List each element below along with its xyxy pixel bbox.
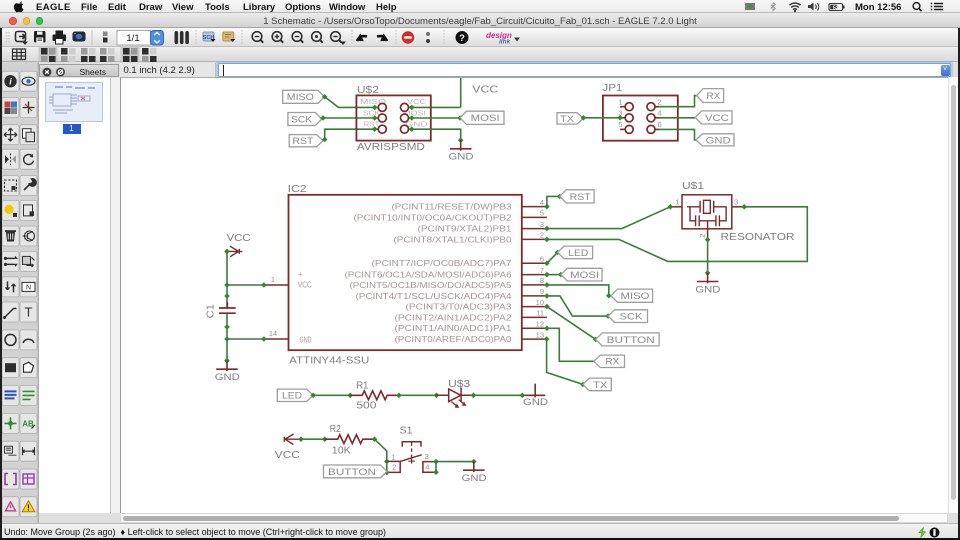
tool button WIRE [2,302,19,322]
tool button DISPLAY [2,98,19,118]
tool button TEXT [20,302,37,322]
net tag MISO (right of IC2) [611,289,653,302]
IC2 pin 4 stub [522,206,547,208]
toolbar separator [443,30,445,45]
junction at button-row ground [471,459,477,465]
sheets panel header [39,64,119,78]
toolbar separator [351,30,353,45]
junction at IC2 pin 7 [544,272,550,278]
junction at IC2 pin 3 [544,226,550,232]
JP1 pad pin 6 (right column) [655,128,659,130]
toolbar drag handle [7,32,10,44]
wire JP1 pin 2 to RX tag [659,96,697,107]
tool button MARK [20,98,37,118]
junction at VCC symbol [224,249,230,255]
sheets panel detach button [56,67,65,76]
tool button DELETE [2,226,19,246]
wire IC2 pin 2 to resonator pin 3 (long loop) [547,207,807,262]
IC2 pin 10 stub [522,306,547,308]
junction at S1 pin 4 [433,469,439,475]
junction at LED-row ground [520,393,526,399]
wire resonator pin 2 to ground [707,240,709,273]
net tag TX (left of JP1) [557,113,583,124]
toolbar button: use library [175,31,189,44]
junction at MOSI tag tip [558,272,564,278]
junction at MOSI tag tip [457,115,463,121]
IC2 pin 8 stub [522,284,547,286]
switch S1 blade [400,455,422,462]
tool button BUS [2,385,19,405]
net tag BUTTON (right of IC2) [596,333,659,346]
junction at IC2 pin 8 [544,282,550,288]
wire IC2 pin 12 to RX tag [547,328,594,361]
junction at U$2 pin 3 [372,115,378,121]
junction at MISO tag tip [322,94,328,100]
resonator crystal element [687,201,727,213]
toolbar button: options dots [426,32,430,36]
switch S1 button cap [402,442,421,447]
JP1 pad pin 1 (left column) [620,106,625,108]
tool button FRAME [2,469,19,489]
IC2 pin 7 stub [522,274,547,276]
net tag MOSI (right of U$2) [460,111,504,124]
junction at R2 pin 1 [322,436,328,442]
tool button PASTE [20,200,37,220]
junction at MISO tag tip [606,293,612,299]
switch S1 actuator (dashed) [411,443,413,459]
connector U$2 AVRISPSMD outline [356,95,430,140]
junction at resonator pin 1 [668,204,674,210]
wire IC2 pin 8 to MISO tag [547,285,611,296]
net tag RST (right of IC2) [560,190,594,203]
tool button ADD [20,226,37,246]
tool button DIMENSION [20,441,37,461]
tool button RECT [2,358,19,378]
tool button GATESWAP [2,277,19,297]
junction at S1 pin 3 [433,459,439,465]
JP1 pad pin 4 (right column) [655,117,659,119]
wire U$3 to ground [473,394,522,396]
JP1 pad pin 2 (right column) [655,106,659,108]
junction at R1 pin 1 [347,393,353,399]
ground symbol GND (left of IC2) [216,361,238,372]
resonator U$1 outline [682,195,732,229]
wire IC2 pin 10 to BUTTON tag (diagonal) [547,307,596,340]
tool button LABEL [20,413,37,433]
IC2 pin 5 stub [522,216,547,218]
junction at IC2 pin 14 [261,336,267,342]
switch S1 right contact bracket (pins 3,4) [423,462,436,473]
net tag LED (right of IC2) [558,246,593,259]
tool button ARC [20,330,37,350]
LED U$3 symbol [436,388,473,402]
tool button JUNCTION [2,413,19,433]
wire R2 to switch S1 pins 1/2 [375,439,387,472]
tool button DESIGNRULES [20,469,37,489]
toolbar button: zoom in [272,32,282,42]
resonator internal capacitors [690,207,726,229]
wire MISO tag to U$2 pin 1 (diagonal+horizontal) [325,97,375,108]
junction at U$2 pin 4 [409,115,415,121]
net tag MOSI (right of IC2) [561,268,602,281]
junction at resonator pin 2 [705,237,711,243]
vertical scrollbar [948,77,958,513]
tool button MIRROR [2,149,19,169]
toolbar separator [241,30,243,45]
switch S1 left contact bracket (pins 1,2) [387,461,400,472]
IC2 pin 13 stub [522,338,547,340]
IC2 pin 2 stub [522,238,547,240]
schematic canvas [120,77,948,513]
tool button CIRCLE [2,330,19,350]
resistor R1 [350,391,399,400]
traffic light zoom button [36,17,44,25]
junction at IC2 pin 10 [544,304,550,310]
junction at U$3 cathode [471,393,477,399]
menu status icon: notification center [934,4,943,10]
U$2 pad pin 3 (left column) [375,117,379,119]
ground symbol GND (below U$2) [450,140,472,151]
sheets panel close button [42,67,51,76]
junction at U$3 anode [434,393,440,399]
layer set button 6 [142,48,149,55]
toolbar button: CAM/export image [73,32,86,42]
command row [0,62,960,78]
ground symbol GND (below resonator) [697,273,719,284]
toolbar separator [91,30,93,45]
sheets preview panel [39,78,112,513]
menu status icon: download [745,3,755,10]
junction at IC2 pin 12 [544,326,550,332]
window edges [0,28,2,538]
net tag TX (below right of IC2) [583,378,611,391]
traffic light minimize button [23,17,31,25]
switch S1 actuator cross [408,458,414,463]
junction at bottom VCC symbol [298,436,304,442]
junction at TX tag tip [581,115,587,121]
toolbar row 2 [0,47,960,62]
wire VCC to R2 [301,438,325,440]
junction at LED tag tip [555,250,561,256]
wire LED tag to R1 [313,394,350,396]
resonator pin 3 stub [732,206,744,208]
junction above resonator ground [705,270,711,276]
wire VCC rail down to capacitor [226,251,228,307]
menu status icon: wifi [790,3,801,9]
junction pin1 branch on rail [224,282,230,288]
tool button GROUP [2,176,19,196]
junction at R1 pin 2 [396,393,402,399]
IC2 pin 3 stub [522,228,547,230]
wire rail to IC2 pin 14 [227,338,264,340]
net tag MISO (left of U$2) [283,90,325,103]
junction at LED tag tip [310,393,316,399]
status icon: ratsnest bolt [919,528,926,538]
tool button POLYGON [20,358,37,378]
menu status icon: spotlight [913,3,920,10]
wire VCC net vertical from canvas top to U$2 row [460,78,462,108]
junction at SCK tag tip [605,313,611,319]
LED U$3 emission arrows [451,400,464,407]
wire RST tag to U$2 pin 5 (up then right) [325,129,375,139]
junction at S1 pin 2 / BUTTON tag tip [384,470,390,476]
junction pin14 branch on rail [224,336,230,342]
junction at IC2 pin 2 [544,237,550,243]
toolbar button: zoom select [312,32,322,42]
power symbol VCC (bottom, arrow pointing left) [284,434,301,445]
wire IC2 pin 6 to LED tag (diagonal) [547,253,558,264]
layer set button 4 [100,48,107,55]
menu status icon: volume [808,3,814,11]
sheet 1 preview thumbnail [45,83,102,122]
junction at JP1 pin 3 [617,115,623,121]
command line input (focused) [218,63,951,78]
wire U$2 MOSI pin to MOSI tag [412,117,460,119]
coordinate display [120,63,216,78]
toolbar button: script [103,32,108,37]
U$2 pad pin 2 (right column) [409,106,412,108]
toolbar button: zoom redraw [331,32,341,42]
U$2 pad pin 6 (right column) [409,128,412,130]
left tool palette [0,62,39,523]
layer set button 2 [61,48,68,55]
toolbar separator [195,30,197,45]
toolbar button: zoom fit [252,32,262,42]
wire S1 pins 3-4 tie [435,462,437,473]
junction at BUTTON tag tip [593,337,599,343]
toolbar button: save [34,31,46,43]
junction at IC2 pin 1 [261,282,267,288]
JP1 pad pin 5 (left column) [620,128,625,130]
layer set button 5 [121,46,140,61]
apple menu logo [14,1,24,12]
horizontal scrollbar [120,513,948,523]
junction at S1 pin 1 [384,459,390,465]
tool button NAME [20,277,37,297]
power symbol VCC (left of IC2, arrow) [227,246,242,257]
tool button CUT [2,200,19,220]
junction at IC2 pin 9 [544,293,550,299]
tool button CHANGE [20,176,37,196]
toolbar button: print [53,31,67,45]
traffic light close button [9,17,17,25]
IC2 pin 12 stub [522,327,547,329]
toolbar button: grid [13,49,26,60]
tool button NET [20,385,37,405]
wire IC2 pin 7 to MOSI tag [547,274,561,276]
selected sheet badge 1 [63,124,81,134]
U$2 pad pin 5 (left column) [375,128,379,130]
junction at IC2 pin 6 [544,260,550,266]
tool button SHOW [20,71,37,91]
tool button ERRORS [20,497,37,517]
net tag RST (left of U$2) [289,135,323,147]
status bar [0,523,960,538]
junction at RST tag tip [322,137,328,143]
net tag RX (right of JP1) [697,89,724,103]
junction above ground symbol [458,137,464,143]
junction at U$2 pin 2 [409,105,415,111]
toolbar button: stop [402,31,414,43]
wire SCK tag to U$2 pin 3 [323,117,375,119]
connector JP1 outline [603,96,678,141]
IC IC2 ATTINY44-SSU outline [289,195,522,350]
wire VCC net horizontal into U$2 pin VCC [412,106,461,108]
net tag LED (bottom row) [277,389,313,401]
junction at TX tag tip [580,382,586,388]
ground symbol GND (LED row, rotated) [525,384,546,398]
toolbar button: undo [357,36,367,41]
left tool palette background [0,62,39,523]
menu status icon: battery [829,4,843,11]
junction at IC2 pin 4 [544,204,550,210]
junction at R2 pin 2 [372,436,378,442]
net tag SCK (right of IC2) [608,310,647,323]
tool button COPY [20,125,37,145]
wire capacitor to GND rail [226,314,228,361]
toolbar button: zoom out [292,32,302,42]
resonator pin 1 stub [670,206,682,208]
IC2 pin 9 stub [522,295,547,297]
junction capacitor top lead [224,293,230,299]
wire IC2 pin 4 to RST tag [547,196,560,206]
net tag RX (below right of IC2) [594,355,625,367]
wire JP1 pin 6 to GND tag [659,129,696,140]
status icon: pause/info [930,528,940,538]
U$2 pad pin 4 (right column) [409,117,412,119]
IC2 pin 14 stub (GND) [264,338,289,340]
net tag VCC (right of JP1) [695,111,732,124]
tool button INFO [2,71,19,91]
toolbar button: redo [377,36,387,41]
junction at RST tag tip [557,194,563,200]
tool button PINSWAP [2,251,19,271]
toolbar button: switch to board BRD [223,32,234,41]
junction at IC2 pin 13 [544,336,550,342]
wire JP1 pin 4 to VCC tag [659,117,695,119]
command line dropdown button [941,65,950,76]
toolbar button: open/import [16,32,26,42]
junction at U$2 pin 1 [372,105,378,111]
junction at U$2 pin 6 [409,126,415,132]
menu status icon: bluetooth [771,3,776,11]
resistor R2 [325,435,375,444]
IC2 pin 6 stub [522,262,547,264]
toolbar button: open schematic SCH [203,32,214,41]
IC2 pin 11 stub [522,316,547,318]
toolbar button: help [456,31,469,44]
IC2 pin 1 stub (VCC) [264,284,289,286]
junction at resonator pin 3 [741,204,747,210]
capacitor C1 plates [219,302,236,313]
layer set button 3 [81,48,88,55]
net tag SCK (left of U$2) [288,113,322,126]
wire IC2 pin 9 to SCK tag [547,296,608,316]
wire IC2 pin 3 to resonator pin 1 [547,207,670,229]
wire rail to IC2 pin 1 [227,284,264,286]
tool button ATTRIBUTE [2,441,19,461]
tool button MOVE [2,125,19,145]
wire R1 to LED U$3 [399,394,437,396]
U$2 pad pin 1 (left column) [375,106,379,108]
tool button ERC [2,497,19,517]
junction capacitor bottom lead [224,324,230,330]
window title bar [0,13,960,28]
resonator pin 2 stub (bottom) [707,229,709,240]
junction at SCK tag tip [320,115,326,121]
junction at ground (left rail) [224,358,230,364]
wire U$2 GND pin down to ground [412,129,461,140]
JP1 pad pin 3 (left column) [620,117,625,119]
sheet selector 1/1 spinbox [117,31,151,46]
wire IC2 pin 13 to TX tag [547,339,583,384]
toolbar separator [395,30,397,45]
net tag GND (right of JP1) [696,134,734,146]
ground symbol GND (button row) [463,462,485,473]
layer set button 1 [39,46,58,61]
net tag BUTTON (bottom) [324,465,388,478]
macOS menu bar [0,0,960,13]
wire TX tag to JP1 pin 3 [583,117,620,119]
junction at U$2 pin 5 [372,126,378,132]
tool button REPLACE [20,251,37,271]
tool button ROTATE [20,149,37,169]
wire S1 pin 3 to ground [436,461,474,463]
toolbar row 1 [0,28,960,47]
